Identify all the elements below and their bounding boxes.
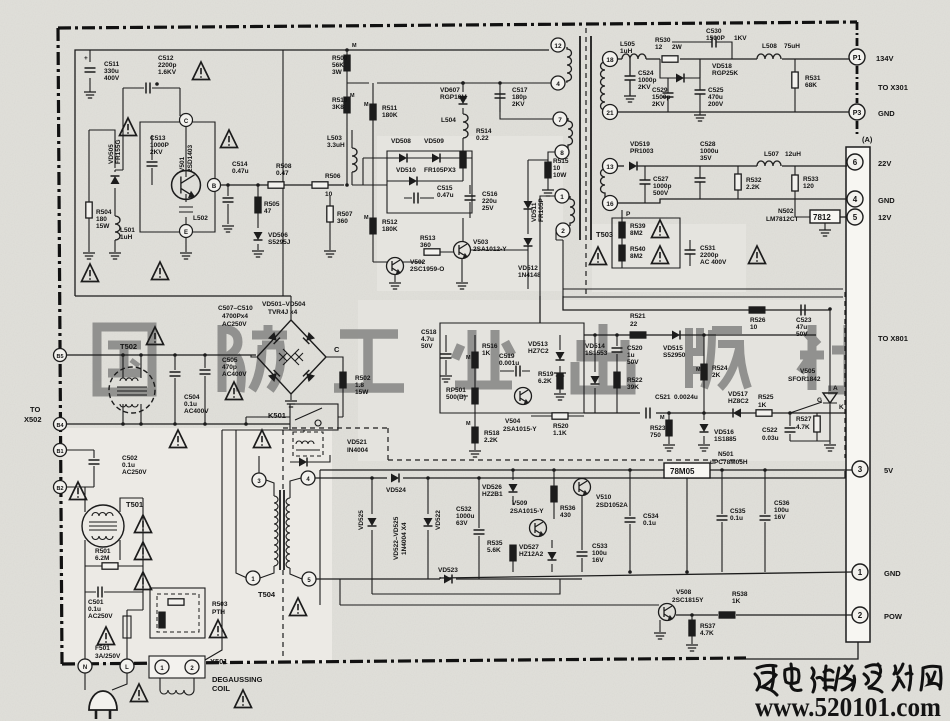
svg-text:R521: R521 [630, 313, 646, 320]
V501 base pin B [208, 179, 221, 192]
svg-text:0.22: 0.22 [476, 135, 489, 142]
svg-text:0.1u: 0.1u [730, 515, 743, 522]
warning triangle bottom-left of box [82, 264, 99, 282]
svg-text:+: + [84, 55, 88, 62]
svg-text:2K: 2K [712, 372, 721, 379]
warning triangle near B2 [70, 482, 87, 500]
capacitor C512 [123, 87, 180, 89]
svg-text:75uH: 75uH [784, 43, 800, 50]
svg-text:430: 430 [560, 512, 571, 519]
warning triangle T501 col 2 [135, 542, 152, 560]
warning triangle T501 col 3 [135, 572, 152, 590]
warning triangle near R539 [652, 220, 669, 238]
diode VD519 [629, 162, 637, 171]
T503 pin 2 [556, 223, 570, 237]
svg-text:C501: C501 [88, 599, 104, 606]
svg-text:50V: 50V [421, 343, 433, 350]
capacitor C501 [85, 591, 143, 593]
hot area bottom dashed boundary [283, 428, 742, 460]
svg-text:RGP10M: RGP10M [440, 94, 467, 101]
svg-text:B5: B5 [56, 354, 63, 360]
svg-text:4.7K: 4.7K [796, 424, 810, 431]
wire 134V rail [646, 58, 849, 60]
svg-text:10: 10 [325, 191, 333, 198]
wire VD521 zone to T504 pin3 [258, 456, 260, 473]
wire pin 8 stub [548, 152, 555, 160]
resistor R505 [257, 196, 259, 224]
left border terminal B4 [54, 418, 67, 431]
svg-text:R516: R516 [482, 343, 498, 350]
svg-text:VD505: VD505 [108, 144, 115, 164]
bus bar bottom wire [746, 642, 858, 659]
svg-text:180: 180 [96, 216, 107, 223]
wire pin 1 down [540, 196, 555, 296]
svg-text:3: 3 [858, 465, 863, 474]
svg-text:C511: C511 [104, 61, 120, 68]
svg-text:10: 10 [750, 324, 758, 331]
svg-text:C520: C520 [627, 345, 643, 352]
wire collector [185, 126, 187, 177]
svg-text:1500p: 1500p [652, 94, 670, 101]
capacitor C521 [646, 408, 650, 419]
V501 collector pin C [180, 114, 193, 127]
resistor R524 [701, 364, 707, 380]
svg-text:47u: 47u [796, 324, 807, 331]
ground R515 [542, 190, 554, 196]
bridge left wire [251, 355, 256, 357]
diode VD506 [257, 224, 259, 250]
svg-text:2SD1403: 2SD1403 [187, 145, 194, 172]
wire C512 left leg down [115, 88, 123, 170]
svg-text:0.03u: 0.03u [762, 435, 779, 442]
svg-text:C516: C516 [482, 191, 498, 198]
svg-text:R531: R531 [805, 75, 821, 82]
svg-text:35V: 35V [700, 155, 712, 162]
svg-text:1K: 1K [482, 350, 491, 357]
transistor V509 [530, 520, 547, 537]
svg-text:T501: T501 [126, 500, 143, 509]
svg-text:0.47u: 0.47u [232, 168, 249, 175]
svg-text:R526: R526 [750, 317, 766, 324]
svg-text:3K8: 3K8 [332, 104, 344, 111]
resistor R501 [102, 563, 118, 569]
AC live rail y355 [66, 354, 256, 356]
bridge rectifier VD501-VD504 [257, 320, 326, 394]
box around R539 R540 [612, 218, 680, 268]
resistor R535 [510, 545, 516, 561]
svg-text:L507: L507 [764, 151, 779, 158]
resistor R515 [547, 160, 549, 190]
degaussing coil [160, 678, 194, 695]
svg-text:C513: C513 [150, 135, 166, 142]
svg-text:220u: 220u [482, 198, 497, 205]
T503 pin 12 [551, 38, 565, 52]
svg-text:8M2: 8M2 [630, 230, 643, 237]
svg-text:R508: R508 [276, 163, 292, 170]
terminal 4 [847, 191, 863, 207]
wire pin 7 stub [500, 92, 553, 119]
transistor V508 [659, 604, 676, 621]
svg-text:2200p: 2200p [158, 62, 176, 69]
svg-text:L505: L505 [620, 41, 635, 48]
transformer T501 [82, 505, 124, 547]
svg-text:100u: 100u [774, 507, 789, 514]
capacitor C522 [789, 413, 791, 441]
wire K501 down to X501 pin2 [205, 430, 304, 660]
svg-text:R524: R524 [712, 365, 728, 372]
wire box to main line [352, 158, 387, 185]
thyristor V505 [823, 309, 837, 440]
inductor L503 [352, 148, 357, 172]
svg-text:8M2: 8M2 [630, 253, 643, 260]
transistor V504 [515, 388, 532, 405]
resistor R507 [329, 196, 331, 250]
capacitor C523 [801, 305, 805, 316]
svg-text:2200p: 2200p [700, 252, 718, 259]
warning triangle right in gray zone [749, 246, 766, 264]
resistor R508 [268, 182, 284, 188]
capacitor C533 [581, 496, 583, 572]
resistor R510 [344, 97, 350, 113]
ground R519 [554, 394, 566, 400]
svg-text:1.6KV: 1.6KV [158, 69, 177, 76]
diode VD526 [512, 470, 514, 505]
svg-text:2W: 2W [672, 44, 683, 51]
svg-text:R520: R520 [553, 423, 569, 430]
capacitor C535 [721, 470, 723, 572]
wire C512 right to collector column [179, 88, 181, 116]
outer dash-dot border frame bottom [62, 658, 746, 664]
svg-text:M: M [696, 367, 701, 373]
svg-text:VD510: VD510 [396, 167, 416, 174]
outer dash-dot border frame top [58, 22, 857, 28]
warning triangle above fuse [98, 627, 115, 645]
diode VD518 [660, 59, 700, 78]
svg-text:47: 47 [264, 208, 272, 215]
watermark 工 [334, 334, 404, 388]
svg-text:V509: V509 [512, 500, 528, 507]
svg-text:R536: R536 [560, 505, 576, 512]
svg-text:400V: 400V [104, 75, 120, 82]
svg-text:K501: K501 [268, 411, 286, 420]
svg-text:R507: R507 [337, 211, 353, 218]
AC rail y424 [66, 423, 290, 425]
signature char 资 [864, 664, 882, 692]
ground V505 cathode [824, 445, 836, 451]
resistor R538 [719, 612, 735, 618]
PTH resistor vertical [159, 612, 165, 628]
svg-text:VD518: VD518 [712, 63, 732, 70]
capacitor C515 [404, 197, 434, 199]
svg-text:R539: R539 [630, 223, 646, 230]
inductor L502 [179, 194, 193, 225]
svg-text:VD523: VD523 [438, 567, 458, 574]
wire emitter to ground [185, 238, 187, 252]
svg-text:C519: C519 [499, 353, 515, 360]
connector X501 [149, 656, 205, 678]
watermark 版 [689, 328, 748, 388]
rail from T504 pin5 [316, 578, 582, 580]
left border terminal B2 [54, 481, 67, 494]
T503 primary winding lower [570, 196, 575, 226]
svg-text:C534: C534 [643, 513, 659, 520]
svg-text:C504: C504 [184, 394, 200, 401]
svg-text:50V: 50V [627, 359, 639, 366]
capacitor C529 [663, 93, 674, 97]
box around VD508 VD509 VD510 [387, 151, 472, 213]
POW control wire [340, 604, 659, 606]
T503 primary winding middle [568, 118, 573, 148]
svg-text:GND: GND [878, 196, 895, 205]
svg-text:R509: R509 [332, 55, 348, 62]
svg-text:L503: L503 [327, 135, 342, 142]
svg-text:R514: R514 [476, 128, 492, 135]
svg-text:VD524: VD524 [386, 487, 406, 494]
wire V505 gate [790, 402, 822, 413]
svg-text:2: 2 [858, 611, 863, 620]
svg-text:1000u: 1000u [456, 513, 474, 520]
capacitor C532 [478, 478, 480, 579]
svg-text:16V: 16V [592, 557, 604, 564]
watermark 国 [97, 327, 152, 392]
svg-text:25V: 25V [482, 205, 494, 212]
svg-text:R503: R503 [212, 601, 228, 608]
svg-text:22V: 22V [878, 159, 891, 168]
svg-text:C528: C528 [700, 141, 716, 148]
svg-text:12: 12 [655, 44, 663, 51]
warning triangle near plug [131, 684, 148, 702]
capacitor C504 [174, 355, 176, 424]
svg-text:R513: R513 [420, 235, 436, 242]
svg-text:1K: 1K [758, 402, 767, 409]
resistor R514 [460, 152, 466, 168]
svg-text:RGP25K: RGP25K [712, 70, 738, 77]
svg-text:R518: R518 [484, 430, 500, 437]
capacitor C527 [640, 180, 651, 184]
svg-text:R515: R515 [553, 158, 569, 165]
svg-text:FR105P: FR105P [538, 197, 545, 222]
base wire B to right [221, 184, 344, 186]
svg-text:63V: 63V [456, 520, 468, 527]
GND rail to terminal 1 [440, 572, 852, 578]
terminal 2 [852, 607, 868, 623]
svg-text:M: M [466, 355, 471, 361]
ground V502 [394, 275, 396, 282]
wire 13 to 22V rail [617, 165, 624, 167]
svg-text:6.2M: 6.2M [95, 555, 109, 562]
svg-text:T503: T503 [596, 230, 613, 239]
ground of 7812 [819, 230, 831, 236]
svg-text:VD522: VD522 [435, 510, 442, 530]
svg-text:M: M [364, 102, 369, 108]
T504 pin 1 [246, 571, 260, 585]
warning triangle below V501 box [152, 262, 169, 280]
svg-text:COIL: COIL [212, 684, 230, 693]
ground L501 [109, 253, 121, 259]
svg-text:1500P: 1500P [706, 35, 725, 42]
middle band rail upper y310 [563, 296, 830, 310]
svg-text:X501: X501 [210, 657, 228, 666]
svg-text:TO: TO [30, 405, 40, 414]
junction dot C512 [155, 82, 159, 86]
svg-text:C523: C523 [796, 317, 812, 324]
left border terminal B1 [54, 444, 67, 457]
svg-text:12: 12 [554, 43, 562, 50]
resistor R506 [312, 182, 328, 188]
svg-text:1.8: 1.8 [355, 382, 364, 389]
svg-text:C518: C518 [421, 329, 437, 336]
diode VD513 [559, 335, 561, 372]
svg-text:VD508: VD508 [391, 138, 411, 145]
svg-text:5: 5 [853, 213, 858, 222]
svg-text:C532: C532 [456, 506, 472, 513]
T504 pin 4 [301, 471, 315, 485]
svg-text:FR105PX3: FR105PX3 [424, 167, 456, 174]
resistor R516 [472, 352, 478, 368]
svg-text:360: 360 [420, 242, 431, 249]
svg-text:VD516: VD516 [714, 429, 734, 436]
svg-text:18: 18 [606, 57, 614, 64]
svg-text:V510: V510 [596, 494, 612, 501]
svg-text:2.2K: 2.2K [484, 437, 498, 444]
diode VD521 [299, 458, 307, 467]
svg-text:2.2K: 2.2K [746, 184, 760, 191]
ground C514 [222, 226, 234, 232]
diode VD524 [391, 474, 399, 483]
V501 emitter pin E [180, 225, 193, 238]
svg-text:VD519: VD519 [630, 141, 650, 148]
svg-text:RP501: RP501 [446, 387, 466, 394]
svg-text:C507–C510: C507–C510 [218, 305, 253, 312]
svg-text:P: P [626, 211, 631, 218]
diode VD508 [399, 154, 407, 163]
svg-text:330u: 330u [104, 68, 119, 75]
svg-text:C531: C531 [700, 245, 716, 252]
right bus bar connector [846, 147, 870, 642]
gray shaded region below T503 [592, 224, 746, 292]
svg-text:56K: 56K [332, 62, 344, 69]
gray shaded region middle feedback band [358, 300, 845, 461]
svg-text:V508: V508 [676, 589, 692, 596]
svg-text:R501: R501 [95, 548, 111, 555]
svg-text:R540: R540 [630, 246, 646, 253]
ground on GND rail [694, 115, 706, 121]
bridge top wire [290, 296, 292, 320]
svg-text:R505: R505 [264, 201, 280, 208]
low voltage rail from T504 pin4 [315, 471, 845, 478]
svg-text:2KV: 2KV [512, 101, 525, 108]
svg-text:R506: R506 [325, 173, 341, 180]
capacitor C519 [500, 370, 530, 372]
svg-text:3W: 3W [332, 69, 343, 76]
svg-text:4.7u: 4.7u [421, 336, 434, 343]
svg-text:C502: C502 [122, 455, 138, 462]
svg-text:F501: F501 [95, 645, 110, 652]
bridge bottom ground [290, 394, 292, 400]
svg-text:(A): (A) [862, 135, 873, 144]
gray shaded region top-middle hot block [377, 136, 563, 291]
svg-text:R522: R522 [627, 377, 643, 384]
capacitor C531 [685, 250, 696, 254]
svg-text:L501: L501 [120, 227, 135, 234]
svg-text:2KV: 2KV [150, 149, 163, 156]
T504 pin 3 [252, 473, 266, 487]
isolation dashed line through T503 [585, 28, 587, 296]
svg-text:3.3uH: 3.3uH [327, 142, 345, 149]
ground 78M05 [686, 478, 688, 572]
junction R510 base line [345, 183, 349, 187]
warning triangle left of K501 [254, 430, 271, 448]
svg-text:4.7K: 4.7K [700, 630, 714, 637]
svg-text:120: 120 [803, 183, 814, 190]
transistor V503 [454, 242, 471, 259]
svg-text:7: 7 [558, 117, 562, 124]
svg-text:5V: 5V [884, 466, 893, 475]
svg-text:R538: R538 [732, 591, 748, 598]
left edge vertical of LV section [319, 470, 321, 605]
svg-text:R519: R519 [538, 371, 554, 378]
svg-text:39K: 39K [627, 384, 639, 391]
svg-text:7812: 7812 [813, 213, 831, 222]
resistor R531 [792, 72, 798, 88]
svg-text:1000P: 1000P [150, 142, 169, 149]
capacitor C505 [204, 355, 206, 424]
svg-text:C505: C505 [222, 357, 238, 364]
svg-text:L: L [125, 665, 129, 671]
svg-text:R511: R511 [382, 105, 398, 112]
svg-text:5.6K: 5.6K [487, 547, 501, 554]
left border terminal B5 [54, 349, 67, 362]
svg-text:B: B [212, 184, 217, 190]
signature char 家 (calligraphic) [755, 665, 777, 695]
hot band right dashed edge [844, 292, 846, 458]
resistor R532 [735, 174, 741, 190]
warning triangle T501 col 1 [135, 515, 152, 533]
capacitor C511 [89, 50, 91, 92]
terminal 3 [852, 461, 868, 477]
terminal 6 [847, 154, 863, 170]
warning triangle below degauss [235, 690, 252, 708]
regulator N501 78M05 [664, 463, 710, 478]
svg-text:10W: 10W [553, 172, 567, 179]
svg-text:2KV: 2KV [638, 84, 651, 91]
T503 pin 21 [603, 105, 618, 120]
svg-text:VD514: VD514 [585, 343, 605, 350]
resistor R520 [552, 413, 568, 419]
resistor R527 [814, 416, 820, 432]
svg-text:B2: B2 [56, 486, 63, 492]
transformer T504 [260, 478, 302, 579]
svg-text:R512: R512 [382, 219, 398, 226]
svg-text:8: 8 [560, 150, 564, 157]
svg-text:1000p: 1000p [638, 77, 656, 84]
svg-text:VD511: VD511 [531, 202, 538, 222]
svg-text:HZ12A2: HZ12A2 [519, 551, 544, 558]
svg-text:C524: C524 [638, 70, 654, 77]
svg-text:2SC1815Y: 2SC1815Y [672, 597, 704, 604]
svg-text:16V: 16V [774, 514, 786, 521]
wire C532 rail joins gnd rail [439, 577, 441, 579]
wire diode row [387, 157, 472, 159]
signature char 修 [835, 666, 855, 690]
diode VD515 [672, 331, 680, 340]
svg-text:X502: X502 [24, 415, 42, 424]
ground V503 [461, 259, 463, 282]
svg-text:500(B): 500(B) [446, 394, 466, 401]
wire 16 to gnd rail [617, 199, 847, 203]
svg-text:750: 750 [650, 432, 661, 439]
capacitor C502 [66, 450, 94, 487]
